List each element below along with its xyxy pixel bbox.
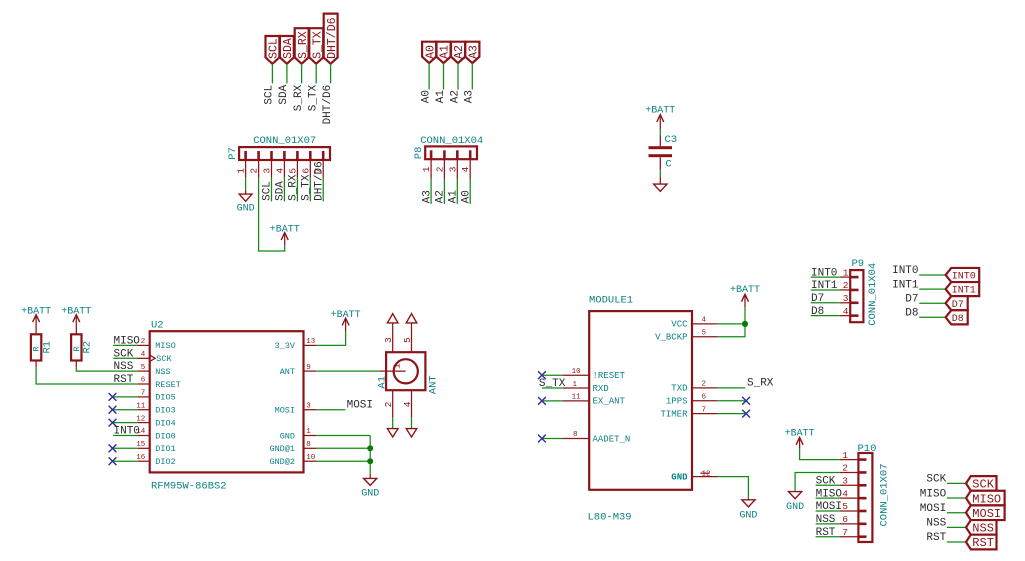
wire U2 DIO5 stub [113, 396, 138, 398]
hierarchical label D7 [946, 296, 968, 311]
svg-text:P10: P10 [858, 443, 877, 455]
svg-text:A2: A2 [435, 190, 447, 203]
svg-text:R: R [72, 346, 82, 351]
svg-text:S_RX: S_RX [293, 84, 305, 111]
wire MODULE1 V_BCKP up [718, 308, 745, 337]
svg-text:ANT: ANT [427, 375, 439, 394]
pin 11 EX_ANT [563, 400, 589, 402]
pin 2 TXD [692, 387, 718, 389]
wire SDA flag stub [286, 64, 288, 84]
svg-text:S_TX: S_TX [311, 31, 324, 59]
svg-text:4: 4 [274, 168, 285, 174]
power +BATT at R2 [61, 307, 91, 335]
svg-text:S_RX: S_RX [288, 174, 300, 201]
wire P8 pin1 stub [430, 179, 432, 204]
svg-text:S_TX: S_TX [301, 174, 313, 201]
svg-text:D7: D7 [905, 293, 918, 305]
pin 10 !RESET [563, 374, 589, 376]
hierarchical label A1 [437, 42, 452, 63]
connector P10 CONN_01X07 [840, 443, 891, 542]
svg-text:P9: P9 [852, 258, 865, 270]
pin 4 line [411, 390, 413, 418]
svg-text:1: 1 [843, 267, 849, 278]
wire SCK to flag [947, 482, 966, 484]
svg-text:11: 11 [572, 394, 582, 402]
svg-text:3: 3 [842, 476, 848, 487]
svg-text:DHT/D6: DHT/D6 [313, 161, 325, 201]
hierarchical label MOSI [966, 505, 1005, 521]
svg-text:3: 3 [447, 166, 458, 172]
svg-text:VCC: VCC [671, 320, 688, 330]
wire U2 3_3V to +BATT [316, 332, 345, 346]
wire antenna pin 4 [411, 418, 413, 429]
pin 4 SCK [137, 357, 149, 359]
hierarchical label SCK [966, 476, 997, 492]
pin 5 line [411, 323, 413, 352]
svg-text:SDA: SDA [282, 38, 295, 59]
wire P7 pin2 to +BATT [259, 178, 285, 251]
pin 8 GND@1 [304, 447, 317, 449]
hierarchical label RST [966, 535, 997, 551]
svg-text:MOSI: MOSI [347, 400, 373, 412]
svg-text:MISO: MISO [972, 492, 1001, 506]
svg-text:+BATT: +BATT [730, 285, 760, 296]
wire R2 to U2 NSS [76, 367, 137, 371]
wire P8 pin3 stub [456, 179, 458, 204]
svg-text:1: 1 [572, 381, 577, 389]
wire A3 flag stub [471, 63, 473, 89]
connector P7 CONN_01X07 [227, 135, 330, 178]
wire SCL flag stub [271, 64, 273, 84]
ground P7 pin1 [237, 190, 255, 214]
hierarchical label MISO [966, 491, 1005, 507]
wire U2 MISO stub [113, 344, 137, 346]
svg-text:MISO: MISO [114, 336, 141, 348]
hierarchical label A3 [465, 42, 480, 63]
svg-text:INT0: INT0 [892, 265, 918, 277]
svg-text:A3: A3 [468, 45, 481, 59]
wire P9 pin4 stub [811, 315, 840, 317]
svg-text:GND: GND [237, 204, 255, 215]
hierarchical label A2 [451, 42, 466, 63]
wire P10 pin5 stub [816, 510, 840, 512]
svg-text:R2: R2 [82, 341, 94, 354]
ground below MODULE1 [739, 498, 757, 521]
svg-text:NSS: NSS [926, 518, 946, 530]
wire S_RX flag stub [301, 64, 303, 84]
svg-text:RST: RST [926, 532, 946, 544]
svg-text:15: 15 [136, 441, 146, 449]
svg-text:RESET: RESET [155, 380, 181, 390]
junction GND pin10 [367, 458, 373, 464]
wire P8 pin4 stub [469, 179, 471, 204]
wire P10 pin1 to +BATT [800, 448, 840, 459]
no-connect X MODULE1 pin 8 [538, 435, 563, 443]
wire P7 pin6 stub [309, 178, 311, 202]
svg-text:GND: GND [786, 502, 804, 513]
svg-text:A0: A0 [420, 90, 432, 103]
svg-text:D7: D7 [811, 293, 824, 305]
wire D8 to flag [919, 316, 945, 318]
svg-text:NSS: NSS [155, 367, 170, 377]
svg-text:A0: A0 [460, 190, 472, 203]
pin 10 GND@2 [304, 460, 317, 462]
module MODULE1 L80-M39 body [563, 295, 718, 524]
wire U2 DIO1 stub [113, 447, 138, 449]
pin 2 MISO [137, 344, 149, 346]
wire P7 pin1 to GND [245, 178, 247, 191]
svg-text:GND: GND [671, 472, 688, 482]
wire U2 GND bus vertical [369, 436, 371, 475]
svg-text:SCK: SCK [114, 348, 134, 360]
svg-text:CONN_01X07: CONN_01X07 [879, 463, 891, 526]
no-connect X pin 11 [109, 406, 117, 414]
svg-text:P7: P7 [227, 147, 239, 160]
svg-text:RXD: RXD [593, 384, 609, 394]
pin 6 1PPS [692, 400, 718, 402]
power +BATT at R1 [21, 307, 51, 335]
svg-text:+BATT: +BATT [785, 429, 815, 440]
arrow up pin 3 [387, 314, 398, 323]
wire MODULE1 GND to ground [718, 477, 749, 499]
svg-text:7: 7 [702, 406, 707, 414]
svg-text:DIO3: DIO3 [155, 406, 175, 416]
svg-text:3: 3 [383, 337, 394, 343]
pin 5 NSS [137, 370, 149, 372]
wire A0 flag stub [428, 63, 430, 89]
hierarchical label D8 [946, 310, 968, 325]
svg-text:2: 2 [141, 338, 146, 346]
wire P10 pin7 stub [816, 536, 840, 538]
power +BATT at P10 [785, 429, 815, 449]
wire U2 GND pin10 [316, 460, 370, 462]
svg-text:4: 4 [842, 488, 848, 499]
svg-text:NSS: NSS [816, 514, 836, 526]
svg-text:GND: GND [739, 511, 757, 522]
no-connect X pin 16 [109, 457, 117, 465]
connector P9 CONN_01X04 [840, 258, 879, 326]
wire INT0 to flag [919, 274, 945, 276]
svg-text:L80-M39: L80-M39 [588, 512, 632, 524]
power +BATT at U2 [331, 310, 361, 332]
svg-text:3: 3 [843, 293, 849, 304]
svg-text:U2: U2 [151, 319, 164, 331]
hierarchical label NSS [966, 520, 997, 536]
wire A2 flag stub [457, 63, 459, 89]
svg-text:6: 6 [702, 394, 707, 402]
op-amp U2 RFM95W-86BS2 body [136, 319, 316, 492]
svg-text:!RESET: !RESET [593, 371, 626, 381]
svg-text:A1: A1 [377, 376, 389, 389]
svg-text:P8: P8 [413, 147, 425, 160]
wire U2 GND pin1 [316, 435, 370, 437]
wire MISO to flag [947, 497, 966, 499]
no-connect X pin 15 [109, 444, 117, 452]
wire MODULE1 TXD stub [718, 387, 746, 389]
wire C3 to ground [659, 170, 661, 177]
svg-text:SCK: SCK [816, 476, 836, 488]
wire P9 pin3 stub [811, 302, 840, 304]
svg-text:D8: D8 [811, 306, 824, 318]
hierarchical label DHT/D6 [324, 14, 339, 64]
power +BATT at C3 [645, 105, 675, 129]
svg-text:DHT/D6: DHT/D6 [326, 17, 339, 59]
svg-text:DIO4: DIO4 [155, 418, 175, 428]
junction GND pin8 [367, 445, 373, 451]
wire R1 to U2 RST [36, 367, 137, 384]
wire RST to flag [947, 541, 966, 543]
wire U2 DIO2 stub [113, 460, 138, 462]
svg-text:MISO: MISO [155, 341, 175, 351]
svg-text:1: 1 [392, 363, 403, 369]
svg-text:1: 1 [421, 166, 432, 172]
svg-text:CONN_01X04: CONN_01X04 [867, 263, 879, 326]
wire MOSI to flag [947, 512, 966, 514]
svg-text:DIO5: DIO5 [155, 393, 175, 403]
svg-text:2: 2 [702, 381, 707, 389]
svg-text:NSS: NSS [972, 522, 994, 536]
svg-text:10: 10 [572, 368, 582, 376]
svg-text:5: 5 [287, 168, 298, 174]
svg-text:4: 4 [702, 317, 707, 325]
svg-text:SCK: SCK [156, 354, 172, 364]
svg-text:1: 1 [236, 168, 247, 174]
svg-text:5: 5 [402, 337, 413, 343]
wire U2 DIO4 stub [113, 422, 138, 424]
pin 9 ANT [304, 370, 317, 372]
svg-text:MISO: MISO [816, 488, 843, 500]
svg-text:SDA: SDA [275, 181, 287, 201]
svg-text:RFM95W-86BS2: RFM95W-86BS2 [151, 481, 227, 493]
svg-text:NSS: NSS [114, 361, 134, 373]
svg-text:S_RX: S_RX [747, 378, 774, 390]
resistor R1 [31, 334, 53, 367]
svg-text:INT1: INT1 [892, 279, 919, 291]
no-connect X pin 7 [109, 393, 117, 401]
svg-text:5: 5 [702, 330, 707, 338]
wire P10 pin4 stub [816, 497, 840, 499]
power +BATT at MODULE1 [730, 285, 760, 308]
svg-text:6: 6 [842, 514, 848, 525]
wire P7 pin3 stub [271, 178, 273, 202]
svg-text:R1: R1 [41, 341, 53, 354]
wire U2 MOSI stub [316, 409, 345, 411]
wire P10 pin6 stub [816, 523, 840, 525]
hierarchical label SDA [280, 36, 295, 64]
pin 6 RESET [137, 383, 149, 385]
svg-text:2: 2 [434, 166, 445, 172]
svg-text:TXD: TXD [671, 384, 687, 394]
pin 1 RXD [563, 387, 589, 389]
svg-text:SCL: SCL [264, 85, 276, 105]
wire P7 pin4 stub [283, 178, 285, 202]
wire P10 pin3 stub [816, 484, 840, 486]
svg-text:MOSI: MOSI [275, 406, 295, 416]
svg-text:SCK: SCK [972, 478, 994, 492]
wire MODULE1 VCC to +BATT [718, 323, 745, 325]
svg-text:MOSI: MOSI [816, 501, 842, 513]
svg-text:C: C [665, 159, 671, 171]
svg-text:GND@2: GND@2 [269, 457, 295, 467]
hierarchical label S_RX [295, 28, 310, 64]
svg-text:AADET_N: AADET_N [593, 434, 631, 444]
svg-text:INT0: INT0 [811, 267, 837, 279]
svg-text:EX_ANT: EX_ANT [593, 397, 626, 407]
svg-text:RST: RST [972, 536, 994, 550]
svg-text:2: 2 [383, 401, 394, 407]
pin 11 DIO3 [137, 409, 149, 411]
svg-text:5: 5 [141, 364, 146, 372]
wire NSS to flag [947, 526, 966, 528]
wire U2 SCK stub [113, 357, 137, 359]
svg-text:INT1: INT1 [811, 280, 838, 292]
junction VCC node [742, 321, 748, 327]
svg-text:2: 2 [843, 280, 849, 291]
wire P7 pin5 stub [296, 178, 298, 202]
svg-text:2: 2 [842, 463, 848, 474]
svg-text:9: 9 [306, 364, 311, 372]
no-connect X MODULE1 pin 10 [538, 371, 563, 379]
svg-text:4: 4 [843, 306, 849, 317]
ground below C3 [654, 177, 667, 192]
svg-text:A1: A1 [448, 190, 460, 204]
svg-text:S_TX: S_TX [539, 378, 566, 390]
svg-text:MOSI: MOSI [972, 507, 1001, 521]
svg-text:4: 4 [402, 401, 413, 407]
pin 3 line [392, 323, 394, 352]
wire P9 pin2 stub [811, 289, 840, 291]
ground at P10 [786, 491, 804, 513]
svg-text:SDA: SDA [278, 84, 290, 104]
wire MODULE1 RXD stub [542, 387, 563, 389]
antenna A1 [377, 314, 440, 418]
svg-text:1: 1 [306, 428, 311, 436]
pin 15 DIO1 [137, 447, 149, 449]
svg-text:D8: D8 [905, 308, 918, 320]
svg-text:DIO1: DIO1 [155, 444, 175, 454]
svg-text:A1: A1 [439, 45, 452, 59]
svg-text:8: 8 [573, 431, 578, 439]
svg-text:GND@1: GND@1 [269, 444, 295, 454]
svg-text:10: 10 [306, 454, 316, 462]
svg-text:S_TX: S_TX [308, 84, 320, 111]
svg-text:S_RX: S_RX [297, 31, 310, 59]
arrow down antenna pin 2 [387, 429, 398, 437]
svg-text:CONN_01X04: CONN_01X04 [420, 135, 483, 147]
hierarchical label INT0 [946, 268, 980, 283]
wire P9 pin1 stub [811, 276, 840, 278]
svg-text:GND: GND [280, 431, 295, 441]
wire U2 ANT to antenna A1 [316, 370, 380, 372]
svg-text:4: 4 [460, 166, 471, 172]
pin 16 DIO2 [137, 460, 149, 462]
svg-text:7: 7 [842, 527, 848, 538]
wire U2 DIO0 stub [113, 435, 137, 437]
hierarchical label INT1 [946, 282, 980, 297]
wire antenna pin 2 [392, 418, 394, 429]
pin 7 TIMER [692, 413, 718, 415]
svg-text:MODULE1: MODULE1 [589, 295, 633, 307]
svg-text:12: 12 [702, 470, 711, 478]
resistor R2 [71, 334, 94, 367]
svg-text:6: 6 [141, 377, 146, 385]
wire +BATT to C3 [659, 130, 661, 136]
svg-text:TIMER: TIMER [660, 409, 688, 419]
wire A1 flag stub [443, 63, 445, 89]
pin 2 line [392, 390, 394, 418]
svg-text:16: 16 [136, 454, 146, 462]
svg-text:13: 13 [306, 338, 316, 346]
svg-text:A1: A1 [435, 90, 447, 104]
pin 7 DIO5 [137, 396, 149, 398]
svg-text:5: 5 [842, 501, 848, 512]
ground below U2 [361, 474, 379, 499]
wire S_TX flag stub [315, 64, 317, 84]
wire P10 pin2 to GND [795, 472, 840, 490]
pin 3 MOSI [304, 409, 317, 411]
svg-text:SCL: SCL [268, 38, 281, 59]
wire P8 pin2 stub [443, 179, 445, 204]
svg-text:DIO2: DIO2 [155, 457, 175, 467]
svg-text:MISO: MISO [920, 488, 947, 500]
no-connect X pin 12 [109, 419, 117, 427]
svg-text:3: 3 [306, 402, 311, 410]
no-connect X MODULE1 pin 7 [718, 410, 750, 418]
hierarchical label SCL [266, 36, 281, 64]
pin 12 GND [692, 476, 718, 478]
wire U2 DIO3 stub [113, 409, 138, 411]
svg-text:SCL: SCL [262, 181, 274, 201]
svg-text:V_BCKP: V_BCKP [655, 333, 687, 343]
svg-text:C3: C3 [665, 134, 678, 146]
svg-text:11: 11 [136, 402, 146, 410]
svg-text:A3: A3 [464, 90, 476, 103]
svg-text:1PPS: 1PPS [666, 397, 688, 407]
connector P8 CONN_01X04 [413, 135, 483, 179]
pin 13 3_3V [304, 344, 317, 346]
svg-text:RST: RST [114, 374, 134, 386]
pin 1 GND [304, 435, 317, 437]
svg-text:DIO0: DIO0 [155, 431, 175, 441]
svg-text:DHT/D6: DHT/D6 [322, 85, 334, 125]
svg-text:3: 3 [262, 168, 273, 174]
svg-text:MOSI: MOSI [920, 503, 946, 515]
svg-text:+BATT: +BATT [270, 225, 300, 236]
svg-text:4: 4 [141, 351, 146, 359]
arrow up pin 5 [406, 314, 417, 323]
wire D7 to flag [919, 302, 945, 304]
hierarchical label S_TX [309, 28, 324, 64]
power +BATT at P7 [270, 225, 300, 246]
capacitor C3 [649, 134, 678, 171]
svg-text:A3: A3 [421, 190, 433, 203]
svg-text:RST: RST [816, 527, 836, 539]
svg-text:R: R [32, 346, 42, 351]
pin 12 DIO4 [137, 422, 149, 424]
arrow down antenna pin 4 [406, 429, 417, 437]
hierarchical label A0 [422, 42, 437, 63]
wire U2 GND pin8 [316, 447, 370, 449]
svg-text:6: 6 [300, 168, 311, 174]
pin 5 V_BCKP [692, 336, 718, 338]
svg-text:+BATT: +BATT [331, 310, 361, 321]
svg-text:SCK: SCK [926, 474, 946, 486]
wire INT1 to flag [919, 288, 945, 290]
svg-text:7: 7 [141, 390, 146, 398]
wire P7 pin7 stub [322, 178, 324, 202]
pin 4 VCC [692, 323, 718, 325]
svg-text:D8: D8 [952, 314, 964, 325]
